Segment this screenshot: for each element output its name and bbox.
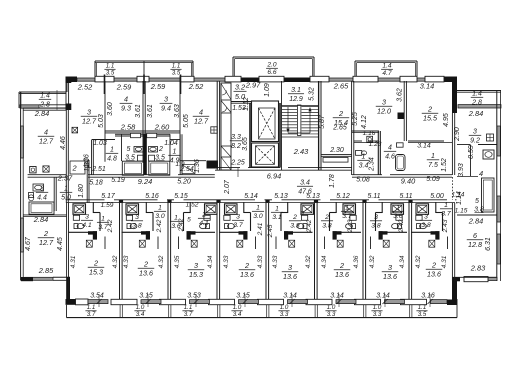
east wing corner thick [452,77,457,113]
svg-text:1.04: 1.04 [164,140,178,147]
east wing duct grid [487,134,494,141]
svg-text:2: 2 [431,261,436,270]
svg-text:4.45: 4.45 [57,237,64,251]
svg-text:4.35: 4.35 [174,255,181,268]
svg-text:3.4: 3.4 [359,163,369,170]
north exterior wall black segments [67,77,77,83]
bath cluster west wall x105 lower [104,132,106,162]
svg-text:1: 1 [362,154,366,161]
svg-text:1: 1 [256,205,260,212]
toilet left wc [138,155,144,161]
svg-text:13.6: 13.6 [427,270,441,279]
svg-text:2.84: 2.84 [468,217,483,226]
balcony dividers [119,305,121,318]
svg-text:3: 3 [288,263,292,272]
left apt bath partition [53,178,55,212]
balcony front line [67,317,458,319]
svg-text:6: 6 [473,231,477,240]
svg-text:3: 3 [388,263,392,272]
bathtub left [122,161,143,175]
svg-text:3.8: 3.8 [371,223,381,230]
svg-text:5.32: 5.32 [309,87,316,101]
svg-text:4.34: 4.34 [207,255,214,268]
svg-text:9.3: 9.3 [121,104,131,113]
svg-text:1.4: 1.4 [472,91,482,98]
east wing partition x470 [470,145,472,177]
svg-text:1.12: 1.12 [243,97,250,111]
svg-text:15.3: 15.3 [189,270,203,279]
svg-text:3.15: 3.15 [236,293,250,300]
svg-text:5.03: 5.03 [98,114,105,128]
svg-text:4.34: 4.34 [399,255,406,268]
svg-text:1.1: 1.1 [106,63,115,70]
svg-text:4.32: 4.32 [112,255,119,268]
svg-text:3.15: 3.15 [139,293,153,300]
svg-text:4.32: 4.32 [305,255,312,268]
svg-text:2: 2 [71,164,76,173]
svg-text:2: 2 [143,260,148,269]
svg-text:15.5: 15.5 [423,114,438,123]
bath cluster ceiling wall y131 [105,130,180,132]
module 8 shower box [416,204,429,215]
svg-text:12.7: 12.7 [194,117,209,126]
corridor east end dashed [451,177,453,200]
module 2 shower box [126,204,139,215]
apartment module 7 party wall [362,203,364,299]
svg-text:13.6: 13.6 [335,270,349,279]
svg-text:1.52: 1.52 [441,158,448,172]
svg-text:1: 1 [275,206,279,213]
left wing north wall [19,91,66,93]
svg-text:1.52: 1.52 [186,202,199,209]
svg-text:2: 2 [43,229,48,238]
svg-text:3.5: 3.5 [418,311,427,318]
stairwell walls [281,81,283,170]
svg-text:5.15: 5.15 [174,193,188,200]
east exterior wall [496,91,498,282]
apartment module 6 party wall [314,203,316,299]
west exterior wall [20,92,22,281]
svg-text:3.3: 3.3 [280,311,289,318]
svg-text:3.0: 3.0 [393,213,403,220]
south wall hatch segments [88,300,108,304]
svg-text:3.8: 3.8 [322,223,332,230]
svg-text:5.13: 5.13 [274,193,288,200]
svg-text:5.11: 5.11 [399,193,412,200]
svg-text:3: 3 [85,214,89,221]
svg-text:3.8: 3.8 [132,223,142,230]
svg-text:1.1: 1.1 [184,304,193,311]
svg-text:12.7: 12.7 [82,117,97,126]
left apt closet box 2 [70,161,85,174]
south-east corner walls [447,300,457,306]
left wing tick [56,90,58,110]
svg-text:2.8: 2.8 [39,102,50,109]
svg-text:4.32: 4.32 [369,255,376,268]
bathtub right [149,161,170,175]
dim extension tick 2.25 [237,168,239,177]
tub bath 4.6 [396,155,406,171]
svg-text:3: 3 [382,98,386,107]
svg-text:2.42: 2.42 [306,219,313,233]
svg-text:2: 2 [244,261,249,270]
svg-text:2.34: 2.34 [369,157,376,172]
apartment module 1 party wall [66,203,68,302]
svg-text:1.4: 1.4 [382,63,391,70]
svg-text:9.40: 9.40 [401,177,416,186]
svg-text:2.42: 2.42 [156,219,163,233]
svg-text:2.41: 2.41 [257,222,264,236]
module 6 bathroom walls and fixtures [335,202,337,213]
svg-text:5.13: 5.13 [306,193,320,200]
svg-text:4.33: 4.33 [257,255,264,268]
bath cluster right ceiling y141 [354,140,362,142]
svg-text:2.84: 2.84 [33,215,48,224]
svg-text:1.4: 1.4 [40,93,50,100]
svg-text:0.59: 0.59 [468,145,475,159]
svg-text:3.8: 3.8 [290,223,300,230]
svg-text:5.00: 5.00 [430,193,444,200]
party wall door blocks [119,200,123,203]
svg-text:5.18: 5.18 [89,180,103,187]
east wing window hatch [458,105,501,108]
svg-text:4.12: 4.12 [361,115,368,129]
apartment module 3 party wall [167,203,169,299]
room 15.4 shelf box [323,158,348,163]
svg-text:3.5: 3.5 [172,70,181,77]
east wing wall y176 [457,176,478,178]
svg-text:3: 3 [194,261,198,270]
elevator shaft 2 [252,143,279,167]
svg-text:3.53: 3.53 [187,293,201,300]
svg-text:3.7: 3.7 [184,311,193,318]
svg-text:4.1: 4.1 [82,222,92,229]
svg-text:3.0: 3.0 [155,213,165,220]
toilet right cluster [356,151,362,156]
cluster wall x180 [179,134,181,174]
east corner step wall [452,277,457,304]
east wing corridor-side wall [451,113,453,175]
washer right cluster [367,136,373,142]
module 6 shower box [343,204,356,215]
svg-text:3.60: 3.60 [107,102,114,116]
east wing north wall [457,90,501,92]
svg-text:4: 4 [388,145,392,152]
svg-text:3: 3 [87,108,91,117]
svg-text:4.95: 4.95 [443,113,450,127]
svg-text:1: 1 [158,205,162,212]
svg-text:2.65: 2.65 [333,82,349,91]
svg-text:2.59: 2.59 [150,82,165,91]
east wing south wall [452,277,460,281]
svg-text:4.8: 4.8 [107,156,117,163]
svg-text:2.0: 2.0 [266,62,276,69]
svg-text:3.65: 3.65 [242,137,249,151]
svg-text:3: 3 [473,129,477,136]
module 5 bathroom walls and fixtures [287,202,289,213]
svg-text:4.32: 4.32 [158,255,165,268]
svg-text:2: 2 [292,214,297,221]
svg-text:3.61: 3.61 [135,104,142,118]
svg-text:2.85: 2.85 [38,266,54,275]
svg-text:5: 5 [127,146,131,153]
svg-text:3.14: 3.14 [376,293,390,300]
module 4 shower box [225,204,238,215]
svg-text:3.7: 3.7 [233,222,243,229]
corridor west wall [86,160,88,203]
svg-text:12.9: 12.9 [289,96,303,103]
svg-text:3.7: 3.7 [441,211,451,218]
module 5 shower box [301,204,314,215]
bath strong wall x379 [377,131,379,175]
svg-text:2.43: 2.43 [347,219,354,233]
svg-text:2.42: 2.42 [107,219,114,233]
svg-text:13.6: 13.6 [283,272,297,281]
left apt toilet [29,193,34,198]
svg-text:8.2: 8.2 [231,143,241,150]
svg-text:3.3: 3.3 [373,311,382,318]
sink right wc [149,147,158,153]
svg-text:3.2: 3.2 [235,83,245,92]
svg-text:1.0: 1.0 [373,304,382,311]
core east wall [318,81,320,170]
svg-text:1.03: 1.03 [93,140,107,147]
module 3 bathroom walls and fixtures [189,202,191,213]
core SW corner block [207,161,219,169]
svg-text:3.1: 3.1 [272,214,282,221]
svg-text:3.14: 3.14 [417,143,431,150]
svg-text:3.4: 3.4 [233,311,242,318]
svg-text:1.0: 1.0 [327,304,336,311]
wall x180 [179,81,181,163]
left wing window hatch south side [20,105,39,108]
right apartment hall ceiling y131 [352,130,379,132]
core corridor wall [215,167,240,169]
service duct column [221,83,231,170]
svg-text:12.7: 12.7 [39,238,54,247]
svg-text:12.7: 12.7 [39,137,54,146]
left apt bathtub [29,202,54,214]
svg-text:5.17: 5.17 [101,193,116,200]
east wing washbasin [483,150,494,159]
svg-text:3: 3 [424,214,428,221]
sink left wc [134,147,143,153]
elevator shaft side walls [249,103,251,168]
svg-text:5.20: 5.20 [177,179,191,186]
svg-text:2.58: 2.58 [120,123,136,132]
svg-text:5: 5 [475,198,479,205]
svg-text:5.05: 5.05 [183,114,190,128]
east wing wall y215 [457,214,497,216]
svg-text:2.65: 2.65 [332,125,347,132]
party wall x405 [403,81,405,141]
svg-text:4.36: 4.36 [353,255,360,268]
module 8 east wall [451,203,453,281]
svg-text:5: 5 [300,211,304,218]
vestibule niche arcs [222,91,227,96]
entrance bay centre outline [233,56,314,58]
svg-text:4.33: 4.33 [223,255,230,268]
svg-text:2.52: 2.52 [77,83,92,92]
svg-text:4.34: 4.34 [321,255,328,268]
stair treads [282,106,297,108]
stair stringer [298,105,301,136]
svg-text:2.43: 2.43 [293,147,309,156]
svg-text:1: 1 [110,147,114,154]
south wall black corner west [66,299,76,305]
apartment module 5 party wall [265,203,267,299]
svg-text:5.14: 5.14 [244,193,258,200]
svg-text:4.33: 4.33 [123,255,130,268]
svg-text:4.4: 4.4 [37,195,47,202]
duct grid beside core [211,127,217,133]
svg-text:3.93: 3.93 [458,163,465,177]
module 1 bathroom walls and fixtures [92,202,94,213]
svg-text:2.60: 2.60 [154,123,170,132]
svg-text:1.1: 1.1 [87,304,96,311]
svg-text:3: 3 [164,95,168,104]
svg-text:1: 1 [345,205,349,212]
north wall window boxes [95,76,114,82]
svg-text:4.7: 4.7 [382,70,391,77]
left apt bath top wall [28,174,67,176]
left apt SE step wall [67,277,71,302]
svg-text:4: 4 [124,95,128,104]
svg-text:3.7: 3.7 [342,213,352,220]
left apt corner block NE [66,77,72,84]
svg-text:1: 1 [396,205,400,212]
svg-text:2: 2 [93,259,98,268]
svg-text:1: 1 [431,153,435,160]
north exterior wall hatched segments [77,78,95,81]
svg-text:3.62: 3.62 [397,88,404,102]
svg-text:2: 2 [338,109,343,118]
room 15.4 south wall [321,154,353,156]
svg-text:3: 3 [40,186,44,193]
svg-text:3.14: 3.14 [283,293,297,300]
svg-text:1.0: 1.0 [136,304,145,311]
svg-text:3.1: 3.1 [291,87,301,94]
module 3 shower box [205,204,218,215]
cluster wall x170 [169,134,171,161]
svg-text:1.80: 1.80 [78,184,85,198]
svg-text:3.7: 3.7 [87,311,96,318]
svg-text:6.31: 6.31 [485,237,492,251]
north wall dimension extension bars [104,75,106,95]
svg-text:2: 2 [339,261,344,270]
corridor south wall [67,199,105,201]
svg-text:2.07: 2.07 [224,179,231,195]
svg-text:2.37: 2.37 [57,174,73,183]
svg-text:3.3: 3.3 [231,134,241,141]
svg-text:4.31: 4.31 [441,255,448,268]
svg-text:3.3: 3.3 [327,311,336,318]
svg-text:1.78: 1.78 [329,174,336,188]
svg-text:2.51: 2.51 [91,166,106,173]
party wall x144 [142,81,144,163]
stair arrow down [287,107,289,130]
svg-text:5.25: 5.25 [352,112,359,126]
east wall window hatches [497,126,500,156]
svg-text:4.67: 4.67 [25,236,32,251]
svg-text:3: 3 [374,214,378,221]
cluster wall x92 [91,140,93,175]
east wing wall y144 [457,144,470,146]
wall under left wing [23,107,66,109]
core west wall x215 [216,81,218,170]
left apartment east wall upper [65,110,67,203]
svg-text:2.8: 2.8 [471,100,482,107]
svg-text:1.59: 1.59 [101,202,114,209]
svg-text:6.94: 6.94 [267,172,281,181]
svg-text:3.63: 3.63 [174,104,181,118]
svg-text:4.6: 4.6 [385,154,395,161]
svg-text:5.16: 5.16 [145,193,159,200]
svg-text:1.1: 1.1 [172,63,181,70]
svg-text:5.19: 5.19 [111,177,125,184]
svg-text:1.0: 1.0 [280,304,289,311]
svg-text:4: 4 [44,128,48,137]
svg-text:1: 1 [444,202,448,209]
svg-text:1.15: 1.15 [455,208,468,215]
module 7 bathroom walls and fixtures [381,202,383,213]
svg-text:5: 5 [187,217,191,224]
svg-text:15.3: 15.3 [89,268,103,277]
module 8 bathroom walls and fixtures [435,202,437,213]
cluster wall x121 [121,134,123,161]
svg-text:4.31: 4.31 [70,255,77,268]
svg-text:9.24: 9.24 [138,177,152,186]
cluster centre wall x144 [143,134,146,174]
svg-text:2.97: 2.97 [245,81,261,90]
apartment module 4 party wall [216,203,218,299]
apartment module 8 party wall [408,203,410,299]
svg-text:5.09: 5.09 [426,176,440,183]
duct room 12.0 [398,113,405,120]
svg-text:3.14: 3.14 [330,293,344,300]
svg-text:2.42: 2.42 [178,218,185,232]
svg-text:4.1: 4.1 [199,220,209,227]
svg-text:9.4: 9.4 [161,104,171,113]
left apt duct hatch box [43,166,49,172]
left apt washer [30,167,36,173]
svg-text:1: 1 [173,149,177,156]
left apt bath bottom wall [23,214,66,216]
corridor north wall west section [88,174,170,176]
stair flight bottom wall [282,136,319,138]
svg-text:5.08: 5.08 [356,177,370,184]
svg-text:2: 2 [201,212,206,219]
svg-text:2.25: 2.25 [230,160,245,167]
svg-text:1.1: 1.1 [418,304,427,311]
svg-text:3: 3 [236,214,240,221]
left apt south wall [25,277,53,280]
svg-text:13.6: 13.6 [383,272,397,281]
vestibule wall y102 [231,101,252,103]
svg-text:1.0: 1.0 [233,304,242,311]
cluster top wall y135 [115,133,170,135]
module 4 bathroom walls and fixtures [243,202,245,213]
module 7 shower box [391,204,404,215]
module 1 shower box [73,204,86,215]
hall 7.5 ceiling wall [408,140,444,142]
duct box room 3/12.7 [72,127,78,133]
svg-text:13.6: 13.6 [139,269,153,278]
stair arrow up [309,110,311,133]
svg-text:2.52: 2.52 [188,82,203,91]
svg-text:3.16: 3.16 [421,293,435,300]
svg-text:2.45: 2.45 [267,224,274,238]
